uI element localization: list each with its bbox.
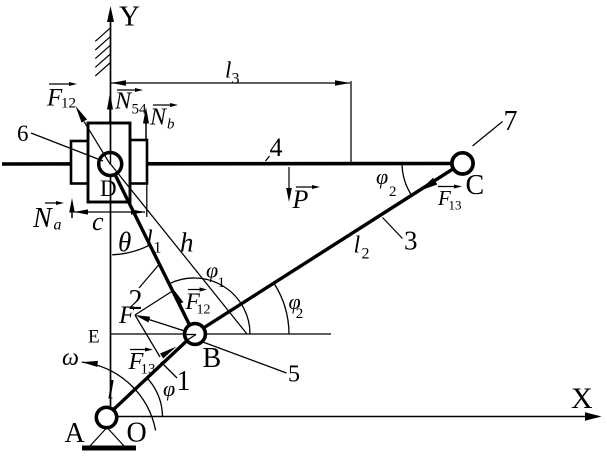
dimension c xyxy=(74,183,147,217)
leader 3 xyxy=(383,218,403,239)
svg-text:3: 3 xyxy=(232,71,240,88)
X axis xyxy=(117,416,599,418)
svg-text:1: 1 xyxy=(218,275,226,291)
link 1 crank A-B xyxy=(106,334,195,417)
force parallelogram side upper xyxy=(135,290,174,315)
slider block 6 left flange xyxy=(71,141,88,184)
guide hatching xyxy=(95,28,110,76)
label Na xyxy=(45,202,57,204)
svg-text:2: 2 xyxy=(362,246,370,263)
joint circle O/A xyxy=(96,407,116,427)
label F12 at slider xyxy=(49,83,70,85)
joint circle B xyxy=(185,324,206,345)
label F13 at C xyxy=(438,186,455,188)
svg-text:7: 7 xyxy=(504,106,518,137)
leader 2 xyxy=(139,264,160,288)
svg-text:1: 1 xyxy=(177,366,191,397)
angle arc phi2 at C xyxy=(402,163,412,195)
link 1 stub inside B xyxy=(187,335,197,341)
svg-text:C: C xyxy=(466,170,485,201)
label Nb xyxy=(153,104,171,106)
svg-text:13: 13 xyxy=(449,198,462,213)
leader 5 xyxy=(202,342,287,374)
angle arc phi at O xyxy=(147,378,162,417)
svg-text:D: D xyxy=(100,176,117,201)
dimension l3 xyxy=(111,81,351,163)
svg-text:h: h xyxy=(180,228,194,258)
svg-text:12: 12 xyxy=(197,303,211,318)
svg-text:1: 1 xyxy=(154,240,162,257)
svg-text:φ: φ xyxy=(206,258,218,283)
svg-text:5: 5 xyxy=(288,362,300,388)
svg-text:12: 12 xyxy=(61,96,76,112)
force parallelogram side lower xyxy=(135,315,160,357)
svg-text:φ: φ xyxy=(376,164,388,189)
vector F13 at C xyxy=(419,178,437,191)
vector F12 at slider D xyxy=(84,122,110,165)
vector Nb xyxy=(145,123,147,140)
wire link 4 (horizontal bar) xyxy=(2,162,451,166)
svg-text:2: 2 xyxy=(389,184,397,200)
vector F12 at B xyxy=(178,300,194,334)
svg-text:O: O xyxy=(127,418,147,449)
joint circle C xyxy=(452,153,473,174)
svg-text:P: P xyxy=(292,185,309,214)
leader 6 xyxy=(31,133,103,161)
svg-text:l: l xyxy=(354,233,361,259)
label P xyxy=(296,186,313,188)
Y axis xyxy=(110,21,112,406)
link 3 B-C xyxy=(194,163,462,334)
svg-text:a: a xyxy=(54,217,62,234)
label F13 near B xyxy=(130,349,146,351)
vector P xyxy=(288,167,290,190)
svg-text:B: B xyxy=(203,343,222,374)
svg-text:l: l xyxy=(146,227,153,253)
link 2 B-D xyxy=(110,163,195,334)
Y axis stub inside D xyxy=(110,153,112,165)
svg-text:X: X xyxy=(571,382,593,415)
svg-text:4: 4 xyxy=(270,133,283,162)
svg-text:13: 13 xyxy=(141,362,156,378)
svg-text:b: b xyxy=(167,117,175,133)
vector F13 at B xyxy=(160,347,177,359)
svg-text:N: N xyxy=(32,203,53,234)
ground bar at A xyxy=(82,446,136,451)
leader 4 xyxy=(266,156,270,161)
svg-text:2: 2 xyxy=(129,285,143,316)
joint circle D xyxy=(99,153,122,176)
label F12 at B xyxy=(188,289,201,291)
omega arrow arc xyxy=(82,362,156,430)
svg-text:l: l xyxy=(107,376,114,405)
label N54 xyxy=(117,89,136,91)
E-line stub inside B xyxy=(186,334,197,336)
angle arc phi1 at B xyxy=(169,278,250,334)
svg-text:3: 3 xyxy=(404,226,418,256)
leader 1 xyxy=(161,362,177,378)
slider block 6 body xyxy=(88,123,130,202)
angle arc phi2 at B xyxy=(274,283,289,334)
vector Na xyxy=(71,212,73,218)
svg-text:l: l xyxy=(225,58,231,83)
vector F at B xyxy=(145,318,194,334)
leader 7 xyxy=(473,122,503,147)
svg-text:φ: φ xyxy=(163,376,175,401)
angle arc theta xyxy=(112,245,150,255)
svg-text:c: c xyxy=(92,207,104,236)
h construction line xyxy=(110,163,247,334)
slider block 6 right flange xyxy=(130,140,147,184)
svg-text:N: N xyxy=(149,105,168,131)
svg-text:θ: θ xyxy=(118,227,131,257)
ground legs at A xyxy=(90,428,107,446)
vector N54 xyxy=(109,109,111,123)
svg-text:ω: ω xyxy=(62,345,79,371)
svg-text:Y: Y xyxy=(119,1,140,33)
svg-text:E: E xyxy=(88,327,100,348)
svg-text:A: A xyxy=(65,418,86,449)
svg-text:2: 2 xyxy=(296,306,304,322)
wire E-line xyxy=(110,333,331,335)
svg-text:6: 6 xyxy=(17,121,29,146)
svg-text:N: N xyxy=(114,89,133,115)
